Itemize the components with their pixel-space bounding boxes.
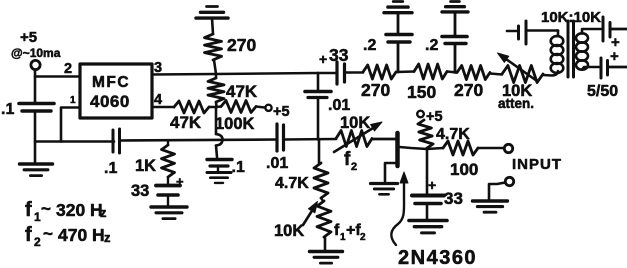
svg-text:1: 1 [70, 95, 76, 106]
svg-text:~: ~ [41, 199, 51, 218]
ground (top, above C9) [393, 0, 403, 3]
ground (below C4 33) [151, 205, 187, 208]
svg-text:10K:10K: 10K:10K [541, 9, 601, 26]
wire R11 to attenuator [490, 74, 502, 75]
svg-text:2: 2 [64, 61, 72, 77]
resistor R2 47K (vertical) [215, 74, 218, 78]
svg-text:270: 270 [227, 35, 256, 55]
svg-text:+: + [319, 51, 327, 67]
wire IC pin 1 to ground bus [61, 108, 80, 142]
svg-text:47K: 47K [226, 82, 258, 101]
potentiometer R6 10K (f2) [336, 131, 372, 147]
transformer T1 core [567, 21, 570, 77]
ground (below C5) [207, 171, 231, 174]
wire bus to R7 [318, 139, 321, 163]
svg-text:+5: +5 [273, 104, 290, 120]
resistor R10 150 [414, 64, 447, 79]
resistor R14 100 [443, 141, 478, 155]
svg-text:INPUT: INPUT [512, 156, 562, 173]
svg-text:5/50: 5/50 [587, 83, 618, 100]
svg-text:@~10ma: @~10ma [11, 46, 61, 60]
ground (below C14) [409, 219, 447, 223]
svg-text:f: f [25, 199, 32, 221]
svg-text:2: 2 [34, 235, 41, 249]
svg-text:4060: 4060 [90, 92, 130, 111]
svg-text:33: 33 [444, 189, 463, 208]
wire ground bus under IC [35, 140, 114, 143]
svg-text:.01: .01 [266, 155, 288, 172]
svg-text:47K: 47K [170, 113, 202, 132]
resistor R11 270 [457, 66, 490, 80]
resistor R5 100K [221, 101, 256, 113]
wire lower signal bus [121, 140, 277, 141]
wire +5 terminal to IC pin 2 [35, 70, 80, 77]
svg-text:MFC: MFC [92, 74, 130, 91]
capacitor C10 .2 [454, 13, 457, 36]
transistor Q1 2N4360 channel bar [395, 133, 400, 166]
svg-text:1: 1 [34, 210, 41, 224]
svg-text:100: 100 [450, 160, 478, 179]
terminal INPUT [504, 144, 512, 152]
capacitor C14 33 electrolytic [426, 149, 429, 194]
svg-text:z: z [100, 205, 107, 220]
svg-text:150: 150 [407, 82, 436, 102]
arrow of R12 wiper [501, 56, 537, 82]
svg-text:2: 2 [351, 161, 357, 173]
capacitor C12 5/50 (secondary top) [602, 17, 605, 41]
svg-text:+: + [610, 48, 619, 65]
arrow of R8 wiper [303, 206, 315, 225]
capacitor C7 .01 (node 3 to bus) [305, 90, 331, 94]
svg-text:~: ~ [43, 224, 53, 243]
resistor R1 270 (vertical) [205, 34, 222, 60]
wire Q1 source to ground [385, 163, 396, 181]
svg-text:2N4360: 2N4360 [398, 247, 477, 268]
ground (top, above R1 270) [207, 5, 218, 8]
svg-text:33: 33 [329, 45, 349, 65]
svg-text:2: 2 [360, 232, 366, 243]
wire pot to Q1 gate [372, 138, 396, 141]
capacitor C9 .2 [397, 14, 400, 34]
resistor R9 270 [363, 65, 396, 79]
svg-text:320 H: 320 H [56, 200, 103, 220]
svg-text:.01: .01 [328, 97, 350, 114]
svg-text:33: 33 [131, 182, 149, 200]
svg-text:10K: 10K [340, 114, 370, 132]
node pin3 to C7 junction [317, 73, 320, 90]
svg-text:+5: +5 [20, 29, 37, 46]
wire IC pin 4 [152, 106, 174, 109]
svg-text:100K: 100K [215, 115, 255, 133]
terminal +5 supply [31, 60, 40, 69]
capacitor C11 (primary top) [507, 30, 517, 33]
svg-text:270: 270 [454, 80, 483, 100]
svg-text:1K: 1K [135, 157, 156, 175]
resistor R3 1K [167, 141, 169, 145]
transformer T1 primary winding [557, 31, 560, 37]
svg-text:.2: .2 [363, 37, 376, 54]
resistor R4 47K (horizontal) [174, 101, 209, 113]
resistor R13 4.7K (vertical) [418, 120, 433, 148]
wire node R4/R5 down with hop over bus [215, 107, 218, 134]
ground (top, above C10) [451, 0, 460, 3]
resistor R7 4.7K (vertical) [314, 163, 328, 198]
wire IC pin 3 node [152, 73, 318, 75]
ground (below R8) [324, 237, 327, 250]
svg-text:z: z [104, 230, 111, 245]
IC U1 MFC 4060 [80, 64, 152, 118]
svg-text:.1: .1 [232, 159, 245, 176]
svg-text:4.7K: 4.7K [275, 175, 309, 192]
capacitor C1 .1 (supply bypass) [19, 102, 54, 106]
annotation arrow to Q1 [391, 183, 404, 245]
wire Q1 drain to node [400, 147, 428, 149]
svg-text:470 H: 470 H [58, 225, 105, 245]
svg-text:10K: 10K [274, 222, 304, 240]
svg-text:4: 4 [154, 92, 162, 108]
ground (input jack) [473, 199, 508, 202]
transformer T1 secondary winding [576, 33, 588, 42]
svg-text:f: f [25, 224, 32, 246]
terminal ground (below INPUT) [505, 177, 513, 185]
terminal +5 (Q1 drain supply) [417, 111, 424, 118]
svg-text:atten.: atten. [498, 96, 534, 111]
wire bus C6 to pot [284, 138, 336, 141]
capacitor C5 .1 (to ground) [207, 158, 232, 161]
svg-text:.1: .1 [104, 160, 117, 177]
svg-text:.1: .1 [1, 101, 14, 118]
svg-text:+: + [428, 177, 436, 193]
potentiometer R8 10K (f1+f2) [321, 198, 323, 201]
ground (Q1 source) [371, 182, 398, 185]
ground (left, below C1) [20, 162, 53, 165]
svg-text:4.7K: 4.7K [436, 126, 470, 143]
svg-text:+5: +5 [426, 109, 443, 125]
terminal +5 (R5 end) [265, 105, 271, 111]
svg-text:.2: .2 [425, 37, 438, 54]
svg-text:f: f [344, 149, 351, 170]
potentiometer R12 10K atten. [502, 66, 543, 83]
arrow of R6 wiper [334, 125, 378, 152]
svg-text:270: 270 [361, 80, 390, 100]
capacitor C13 5/50 (secondary bottom) [600, 58, 603, 78]
capacitor C2 .1 (series, lower bus) [112, 130, 115, 152]
capacitor C6 .01 (series on bus) [275, 124, 278, 151]
